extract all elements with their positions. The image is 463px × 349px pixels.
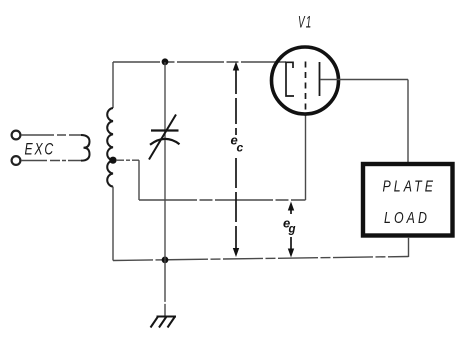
capacitor C1 variable slash — [149, 115, 176, 160]
wire load box bottom to bus — [408, 237, 410, 257]
terminal J2 (lower EXC input) — [12, 156, 21, 165]
svg-text:LOAD: LOAD — [384, 210, 430, 227]
wire plate drop to load box — [407, 80, 409, 163]
node top bus junction dot — [162, 58, 169, 65]
wire left vertical (top bus down to coil) — [112, 62, 114, 108]
tube V1 plate — [319, 62, 321, 96]
label e_c — [231, 133, 244, 155]
ground (chassis) symbol — [151, 317, 177, 328]
wire tap to grid: horizontal from tap — [116, 159, 139, 161]
label e_g — [283, 216, 296, 236]
label V1 — [298, 14, 313, 32]
wire lower EXC lead — [21, 160, 81, 162]
arrow e_c (double-headed, tank voltage) — [233, 62, 239, 258]
wire capacitor branch vertical — [164, 62, 166, 260]
wire tap drop vertical — [138, 160, 140, 200]
node coil tap junction dot — [109, 157, 116, 164]
svg-text:EXC: EXC — [25, 140, 56, 159]
wire plate lead — [320, 79, 408, 81]
wire coil bottom lead — [112, 187, 114, 261]
svg-text:c: c — [237, 141, 244, 155]
coupling coil primary winding — [81, 135, 90, 161]
wire grid return horizontal — [139, 199, 306, 201]
tube V1 grid (dashed) — [305, 62, 307, 117]
label EXC — [25, 140, 56, 159]
wire ground drop — [164, 260, 166, 316]
wire upper EXC lead — [21, 134, 81, 136]
tube V1 envelope — [272, 47, 339, 114]
svg-text:g: g — [288, 224, 296, 236]
arrow e_g (double-headed, grid voltage) — [288, 202, 294, 258]
terminal J1 (upper EXC input) — [12, 131, 21, 140]
wire bottom ground bus — [113, 257, 409, 261]
capacitor C1 variable, straight plate — [151, 129, 179, 131]
tube V1 cathode — [286, 62, 294, 96]
svg-text:V1: V1 — [298, 14, 313, 32]
svg-text:PLATE: PLATE — [383, 179, 437, 196]
wire top bus (tank top to tube cathode) — [113, 61, 286, 63]
node ground bus junction dot — [162, 257, 169, 264]
inductor L1 tank coil — [107, 108, 113, 187]
box plate load — [363, 164, 453, 236]
capacitor C1 curved plate — [150, 139, 180, 145]
wire grid vertical below tube — [305, 116, 307, 201]
